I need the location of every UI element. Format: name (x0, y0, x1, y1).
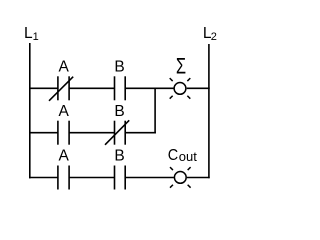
svg-text:A: A (59, 148, 70, 165)
svg-text:B: B (114, 103, 124, 120)
svg-text:1: 1 (33, 31, 39, 43)
svg-text:out: out (179, 149, 197, 164)
svg-text:C: C (168, 146, 178, 164)
svg-text:B: B (114, 59, 124, 76)
svg-text:A: A (59, 103, 70, 120)
svg-text:B: B (114, 148, 124, 165)
svg-text:Σ: Σ (176, 54, 186, 79)
svg-text:2: 2 (211, 31, 217, 43)
svg-text:A: A (59, 59, 70, 76)
